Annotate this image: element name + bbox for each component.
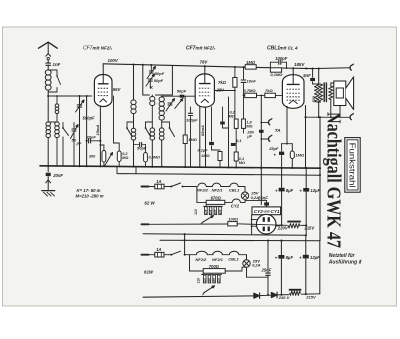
capacitor 1nF antenna series — [46, 60, 51, 70]
label 50pF A — [155, 71, 165, 76]
svg-text:TA: TA — [275, 128, 281, 133]
svg-text:670Ω: 670Ω — [211, 196, 222, 201]
svg-text:1MΩ: 1MΩ — [295, 152, 305, 157]
supply link line A — [143, 233, 307, 236]
svg-text:M=210 -290 m: M=210 -290 m — [76, 193, 104, 198]
svg-text:7kΩ: 7kΩ — [218, 80, 227, 85]
coil L3 tuned pair — [46, 122, 50, 166]
label 100pF V2 — [186, 118, 198, 123]
label 220V upper — [277, 226, 289, 231]
svg-text:mit CL 4: mit CL 4 — [280, 46, 298, 51]
resistor 0,2Mohm AVC — [117, 143, 121, 166]
wire V3 pin left — [286, 106, 288, 144]
svg-text:+: + — [299, 255, 302, 260]
labels 25V 0,2A lower — [252, 258, 261, 267]
label 500 winding — [312, 95, 316, 102]
svg-text:CF7: CF7 — [186, 46, 196, 52]
coil L8 bank B lower — [150, 128, 155, 167]
svg-text:10nF: 10nF — [247, 79, 257, 84]
label 670 ohm — [211, 196, 222, 201]
trimmer capacitor padder — [166, 99, 175, 112]
chassis bus — [40, 165, 320, 169]
resistor 670 ohm — [197, 187, 232, 205]
label 61W — [144, 270, 154, 275]
label 500pF — [83, 116, 96, 121]
svg-text:8μF: 8μF — [286, 255, 294, 260]
label 100 ohm — [228, 216, 239, 221]
svg-text:110: 110 — [194, 209, 198, 215]
wire osc grid line — [162, 95, 180, 97]
svg-text:25nF: 25nF — [261, 267, 272, 272]
wire detector — [228, 97, 230, 168]
coil L2 antenna coupling — [55, 95, 59, 122]
label 8uF upper — [275, 188, 294, 193]
svg-text:220V: 220V — [277, 226, 289, 231]
label 25nF lower — [261, 267, 272, 272]
speaker return wire — [306, 116, 350, 118]
label 25nF upper — [257, 196, 268, 201]
heater chain lower — [196, 251, 246, 254]
label 50pF B — [154, 78, 164, 83]
heater CY2 bump — [232, 199, 245, 202]
svg-text:MΩ: MΩ — [122, 156, 128, 160]
smoothing choke upper — [287, 221, 301, 228]
label 12uF upper — [299, 188, 320, 193]
svg-text:NF2/1: NF2/1 — [212, 257, 224, 262]
label 1MOhm — [246, 60, 256, 65]
label 0,7MOhm — [244, 88, 257, 93]
label 0,2MOhm stack — [229, 111, 236, 119]
Funkstrahl logo box — [345, 138, 360, 193]
label 78V — [200, 59, 209, 64]
heater chain upper NF2/2 NF2/1 CBL1 — [198, 183, 245, 186]
svg-text:50pF: 50pF — [177, 89, 187, 94]
resistor 0,1Mohm AF — [234, 143, 238, 168]
filter capacitor 8uF upper — [279, 168, 285, 225]
wire anode V2 — [204, 66, 206, 74]
resistor 1Mohm grid leak — [183, 135, 187, 167]
wire V2 pin with 68mA — [205, 107, 207, 167]
svg-text:700Ω: 700Ω — [209, 264, 220, 269]
rectifier tube CY2 — [251, 214, 282, 234]
svg-text:+: + — [275, 188, 278, 193]
svg-text:NF2/1: NF2/1 — [212, 188, 224, 193]
resistor 0,5Mohm — [144, 145, 148, 167]
svg-text:CY2: CY2 — [231, 203, 240, 208]
svg-text:100pF: 100pF — [186, 118, 198, 123]
wire V3 pin right — [304, 106, 306, 169]
label 1A upper — [156, 179, 161, 184]
label 15mA — [95, 124, 100, 135]
heater return line — [117, 167, 320, 176]
svg-text:+: + — [299, 189, 302, 194]
svg-text:0,1µF: 0,1µF — [197, 148, 208, 153]
capacitor 25nF lower — [247, 241, 271, 296]
labels 25V 0,2A upper — [250, 191, 259, 200]
label 300 — [89, 155, 96, 159]
label 12uF lower — [299, 255, 320, 260]
capacitor 0,1uF blob coupling — [209, 107, 214, 150]
mains line 2 with 100 ohm — [142, 222, 308, 227]
svg-text:+: + — [273, 153, 276, 158]
spark gap arrow — [46, 180, 51, 191]
svg-text:pF: pF — [76, 141, 82, 146]
label 20nF — [86, 135, 97, 140]
svg-text:125: 125 — [203, 278, 207, 283]
labels heater tubes upper — [197, 188, 240, 193]
svg-text:1A: 1A — [156, 179, 161, 184]
antenna — [39, 42, 58, 60]
label stage CF7 mit NF2/1 — [83, 46, 113, 52]
svg-text:50pF: 50pF — [154, 78, 164, 83]
label CY2 — [231, 203, 240, 208]
svg-text:500: 500 — [312, 95, 316, 102]
TA pickup jack lower — [261, 135, 272, 141]
label 62W — [144, 201, 155, 206]
svg-text:12μF: 12μF — [310, 188, 320, 193]
label CY2undCY1 box — [252, 207, 281, 215]
wire cathode V1 — [99, 107, 101, 166]
pilot lamp upper — [241, 187, 248, 200]
label 10nF — [247, 79, 257, 84]
svg-text:100Ω: 100Ω — [228, 216, 239, 221]
filter capacitor 12uF lower — [303, 235, 309, 294]
svg-text:28V: 28V — [216, 88, 226, 93]
mains switch lower — [169, 251, 197, 255]
svg-text:220: 220 — [217, 278, 221, 284]
label 20nF earth — [52, 173, 63, 178]
voltage selector lower — [197, 273, 222, 295]
band switch S2 — [126, 122, 133, 137]
resistor 7kohm screen — [233, 67, 237, 91]
label 50pF grid — [177, 89, 187, 94]
label TA — [275, 128, 281, 133]
svg-text:CF7: CF7 — [83, 46, 93, 52]
coil L6 IF primary — [131, 65, 136, 129]
wire antenna to grid line — [47, 90, 91, 122]
svg-text:und: und — [264, 210, 271, 214]
svg-text:110: 110 — [197, 278, 201, 284]
label 1,8MOhm stack — [246, 121, 254, 139]
label 0,1MOhm — [270, 72, 283, 77]
earth ground — [42, 191, 55, 196]
coil L9 bank C upper — [159, 96, 164, 128]
label 230V — [278, 295, 290, 300]
antenna coil L1 with switch — [45, 70, 60, 92]
svg-text:+: + — [275, 256, 278, 261]
svg-text:0,2A: 0,2A — [252, 263, 261, 268]
label wave ranges — [76, 188, 104, 198]
band switch S3 — [145, 122, 153, 137]
svg-text:185: 185 — [213, 209, 217, 214]
label 0,2MOhm — [122, 152, 128, 160]
wire anode V3 — [292, 68, 294, 74]
svg-text:12μF: 12μF — [310, 255, 320, 260]
label 28V — [216, 88, 226, 93]
variable capacitor 500pF tuning — [76, 95, 85, 166]
svg-text:Ausführung Ⅱ: Ausführung Ⅱ — [328, 260, 363, 266]
svg-text:NF2/2: NF2/2 — [195, 257, 207, 262]
label 1MOhm cathode — [295, 152, 305, 157]
resistor 700 ohm — [185, 255, 247, 274]
labels heater tubes lower — [195, 257, 239, 262]
svg-text:CBL1: CBL1 — [229, 188, 240, 193]
tube V1 CF7 — [94, 75, 112, 107]
selenium rectifier diode 1 — [143, 293, 260, 299]
output jack upper — [350, 64, 353, 70]
svg-text:1nF: 1nF — [53, 62, 61, 67]
svg-text:1MΩ: 1MΩ — [246, 60, 256, 65]
capacitor 25uF electrolytic — [279, 144, 284, 168]
label 215V lower — [305, 295, 316, 300]
label 700 ohm — [209, 264, 220, 269]
svg-text:K= 17- 50 m: K= 17- 50 m — [77, 188, 101, 193]
svg-text:μF: μF — [246, 135, 252, 139]
oscillator coil L5 — [150, 95, 155, 128]
label 100V — [108, 58, 119, 63]
svg-text:61W: 61W — [144, 270, 154, 275]
label stage CF7 mit NF2/2 — [186, 46, 216, 52]
label 1A lower — [156, 247, 161, 252]
label 7kOhm grid — [265, 88, 273, 93]
oscillator unit box — [143, 65, 173, 95]
wire screen node 28V — [214, 90, 235, 119]
wire link to PSU2 switch — [184, 234, 186, 255]
fuse 1A upper — [149, 184, 169, 189]
smoothing choke lower — [289, 289, 307, 296]
note Netzteil fuer Ausfuehrung II — [328, 253, 363, 266]
capacitor 100pF decoupling bridge — [270, 60, 287, 69]
svg-text:0,7MΩ: 0,7MΩ — [244, 88, 257, 93]
resistor 0,2Mohm a — [234, 91, 238, 129]
trimmer capacitor V2 grid — [175, 99, 183, 109]
svg-text:215V: 215V — [305, 295, 316, 300]
svg-text:1A: 1A — [156, 247, 161, 252]
svg-text:5nF: 5nF — [303, 73, 311, 78]
label 0,1 — [236, 139, 241, 143]
trimmer capacitor 50pF — [71, 123, 79, 167]
svg-text:185: 185 — [212, 278, 216, 283]
band switch S4 — [162, 122, 175, 137]
label 185V — [294, 62, 305, 67]
label 25uF — [268, 146, 279, 158]
capacitor 20nF to earth — [46, 166, 51, 180]
label 7kOhm screen — [218, 80, 227, 85]
selenium rectifier diode 2 — [260, 292, 289, 298]
label K — [150, 85, 154, 90]
svg-text:0,5MΩ: 0,5MΩ — [149, 156, 160, 160]
svg-text:25μF: 25μF — [268, 146, 279, 151]
label 5nF tone — [303, 73, 311, 78]
svg-text:CBL1: CBL1 — [228, 257, 239, 262]
label 8uF lower — [275, 255, 294, 260]
svg-text:1MΩ: 1MΩ — [188, 137, 198, 142]
label 1MOhm grid leak — [188, 137, 198, 142]
resistor 0,2Mohm b — [236, 95, 245, 144]
svg-text:CBL1: CBL1 — [267, 46, 280, 52]
transformer core — [324, 83, 326, 102]
fuse 1A lower — [149, 252, 169, 257]
wire V2 cathode — [199, 106, 201, 167]
svg-text:7kΩ: 7kΩ — [265, 88, 273, 93]
pilot lamp lower — [243, 255, 250, 267]
svg-text:55V: 55V — [113, 87, 122, 92]
svg-text:Netzteil für: Netzteil für — [329, 253, 356, 259]
svg-text:150: 150 — [209, 209, 213, 214]
svg-text:185V: 185V — [294, 62, 305, 67]
label 215V upper — [303, 226, 315, 231]
svg-text:215V: 215V — [303, 226, 315, 231]
svg-text:25nF: 25nF — [257, 196, 268, 201]
trimmer 50pF oscillator B — [146, 74, 155, 88]
label 50pF — [72, 138, 82, 146]
grid capacitor 50pF blob — [180, 95, 196, 98]
output transformer secondary — [329, 83, 335, 117]
svg-text:MΩ: MΩ — [239, 161, 245, 165]
svg-text:NF2/2: NF2/2 — [197, 188, 209, 193]
svg-text:300: 300 — [89, 155, 96, 159]
capacitor 50pF coupling — [134, 143, 146, 147]
tube V3 CBL1 — [282, 75, 304, 109]
svg-text:68mA: 68mA — [200, 125, 205, 136]
resistor 0,1Mohm in rail — [270, 68, 281, 72]
svg-text:78V: 78V — [200, 59, 209, 64]
label 1nF — [53, 62, 61, 67]
label 0,1MOhm AF — [239, 157, 245, 165]
capacitor 10nF screen bypass — [241, 67, 246, 95]
wire screen V1 — [114, 96, 120, 143]
resistor 1Mohm AF — [212, 150, 223, 168]
svg-text:CY2: CY2 — [254, 209, 264, 214]
right heater bus vertical — [319, 116, 321, 241]
resistor 1Mohm in rail — [245, 65, 256, 69]
label 68mA — [200, 125, 205, 136]
label 100pF — [275, 56, 288, 61]
trimmer arrow cathode — [105, 153, 113, 167]
mains cable stub upper — [142, 186, 149, 188]
HT supply rail — [103, 63, 349, 69]
svg-text:MΩ: MΩ — [246, 125, 252, 129]
wire anode V1 to rail — [102, 64, 104, 75]
svg-text:100V: 100V — [108, 58, 119, 63]
svg-text:Funkstrahl: Funkstrahl — [348, 143, 357, 188]
coil L7 bank A lower — [131, 128, 136, 166]
capacitor 25nF rectifier — [245, 201, 269, 207]
wire k with 20nF capacitor — [86, 95, 101, 166]
svg-text:150: 150 — [207, 278, 211, 283]
wire bottom right corner — [306, 241, 320, 294]
svg-text:CY1: CY1 — [271, 209, 281, 214]
wire detector to rectifier — [260, 95, 262, 204]
svg-text:mit NF2/₁: mit NF2/₁ — [93, 46, 113, 51]
band switch S1a — [62, 123, 68, 167]
grid feed line CBL1 — [244, 95, 283, 97]
capacitor 5nF tone — [310, 69, 316, 84]
svg-text:125: 125 — [204, 209, 208, 214]
svg-text:MΩ: MΩ — [229, 115, 235, 119]
output transformer primary — [315, 69, 323, 118]
voltage selector upper — [194, 204, 222, 223]
svg-text:50pF: 50pF — [155, 71, 165, 76]
TA pickup jack upper — [261, 119, 272, 125]
mains switch upper — [169, 183, 197, 187]
wire V2 pin 1 — [184, 96, 186, 135]
svg-text:500pF: 500pF — [83, 116, 96, 121]
filter capacitor 8uF lower — [278, 241, 284, 296]
capacitor blob on TA line — [259, 130, 264, 133]
svg-text:0,1MΩ: 0,1MΩ — [270, 72, 283, 77]
svg-text:1MΩ: 1MΩ — [201, 153, 209, 158]
supply link line B — [160, 239, 320, 241]
svg-text:8μF: 8μF — [286, 188, 294, 193]
svg-text:220: 220 — [218, 209, 222, 215]
title Nachtigall GWK 47 — [322, 112, 344, 248]
capacitor 5nF blob — [220, 107, 228, 128]
label stage CBL1 mit CL4 — [267, 46, 298, 52]
resistor 7kohm grid stop — [265, 93, 276, 97]
capacitor 100pF V2 — [188, 107, 192, 167]
tube V2 CF7 — [195, 74, 214, 107]
svg-text:mit NF2/₂: mit NF2/₂ — [196, 46, 216, 51]
label 0,5MOhm — [149, 156, 160, 160]
svg-text:15mA: 15mA — [95, 124, 100, 135]
filter capacitor 12uF upper — [303, 168, 309, 235]
label 50pF c — [137, 146, 147, 151]
resistor 0,7Mohm — [245, 93, 257, 97]
label 1MOhm AF — [201, 153, 209, 158]
svg-text:0,1: 0,1 — [236, 139, 241, 143]
wire V3 cathode node — [282, 143, 293, 145]
coil L10 bank C lower — [159, 128, 164, 167]
svg-text:230 V: 230 V — [278, 295, 290, 300]
svg-text:Nachtigall GWK 47: Nachtigall GWK 47 — [322, 112, 344, 248]
svg-text:62 W: 62 W — [144, 201, 155, 206]
resistor 1Mohm cathode — [290, 144, 294, 169]
trimmer 50pF oscillator A — [147, 65, 156, 79]
capacitor 0,1 blob AF — [231, 141, 236, 152]
svg-text:100pF: 100pF — [275, 56, 288, 61]
label 0,1uF — [197, 148, 208, 153]
output jack lower — [350, 114, 353, 120]
svg-text:20nF: 20nF — [52, 173, 63, 178]
resistor 300ohm cathode — [100, 144, 106, 166]
loudspeaker — [334, 77, 354, 118]
mains cable stub lower — [142, 254, 149, 256]
label 55V — [113, 87, 122, 92]
coil L4 tuned pair — [48, 122, 59, 166]
